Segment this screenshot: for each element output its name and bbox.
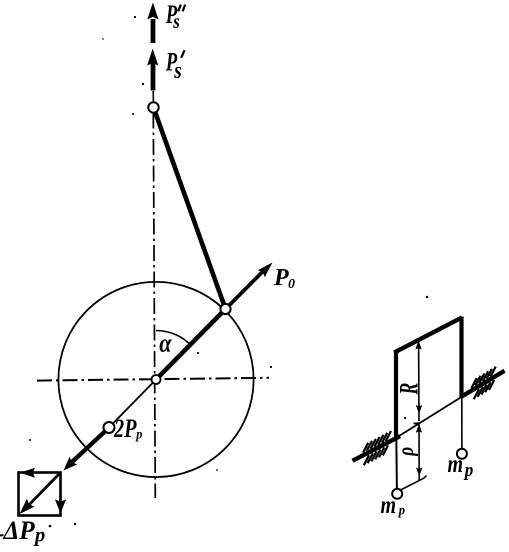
svg-text:0: 0 <box>288 277 295 292</box>
svg-text:m: m <box>381 491 397 519</box>
svg-text:ρ: ρ <box>394 447 419 457</box>
svg-text:α: α <box>159 330 172 358</box>
svg-text:s: s <box>173 57 181 84</box>
svg-text:p: p <box>33 524 45 546</box>
svg-text:p: p <box>135 427 143 442</box>
svg-text:2P: 2P <box>113 415 137 444</box>
svg-text:ΔP: ΔP <box>3 515 36 544</box>
svg-text:m: m <box>448 450 464 478</box>
svg-text:P: P <box>273 265 289 291</box>
svg-text:p: p <box>398 502 406 518</box>
svg-text:R: R <box>394 383 423 396</box>
svg-text:p: p <box>463 459 473 480</box>
svg-text:s: s <box>172 10 179 33</box>
